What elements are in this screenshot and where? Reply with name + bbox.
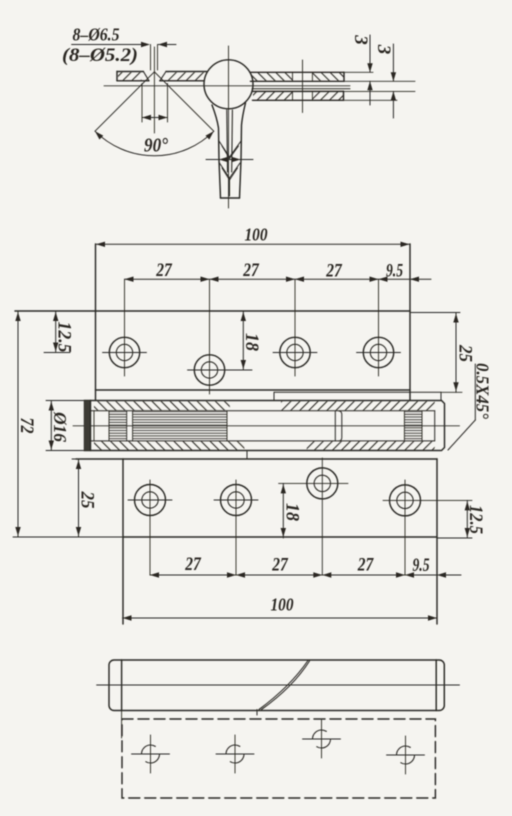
svg-text:12.5: 12.5 <box>465 505 486 534</box>
hinge side view body <box>109 660 444 711</box>
svg-text:18: 18 <box>241 333 262 351</box>
svg-text:0.5X45°: 0.5X45° <box>473 363 493 420</box>
mounting plate phantom outline <box>122 719 435 798</box>
horizontal centerline <box>104 85 350 87</box>
hole centerline <box>153 47 155 133</box>
svg-text:72: 72 <box>16 418 37 434</box>
svg-text:27: 27 <box>325 261 343 282</box>
dimension 72 far left <box>17 311 19 537</box>
knuckle seam curve <box>259 661 308 710</box>
thickness dimension 3 second <box>392 44 394 81</box>
dimension dia16 <box>50 401 52 451</box>
thickness dimension 3 first <box>369 35 371 72</box>
pin end cap <box>85 401 91 450</box>
svg-text:9.5: 9.5 <box>386 261 403 282</box>
countersink width dimension below plate <box>141 84 143 123</box>
dimension 18 top <box>242 311 244 370</box>
svg-text:27: 27 <box>184 554 202 575</box>
90 degree countersink angle <box>95 72 154 131</box>
upper right leaf section <box>250 71 344 73</box>
knurled bushing right <box>404 412 422 441</box>
svg-text:(8–Ø5.2): (8–Ø5.2) <box>62 45 138 66</box>
svg-text:3: 3 <box>350 34 371 45</box>
svg-text:8–Ø6.5: 8–Ø6.5 <box>73 25 120 45</box>
svg-text:90°: 90° <box>144 135 168 157</box>
bottom plate screw holes <box>135 485 166 516</box>
bottom hinge plate <box>76 458 437 460</box>
svg-text:27: 27 <box>357 555 375 576</box>
svg-text:27: 27 <box>271 555 289 576</box>
phantom screw holes <box>142 745 160 763</box>
barrel sleeve hatching <box>94 401 230 410</box>
downward leaf of hinge <box>212 105 221 198</box>
leaf thickness tick dimension <box>206 159 253 161</box>
dimension 100 bottom <box>123 617 438 619</box>
dimension 12.5 left <box>55 311 57 353</box>
vertical centerline of knuckle <box>228 46 230 208</box>
svg-text:3: 3 <box>373 44 394 55</box>
dimension row 27 27 27 9.5 top <box>125 278 411 280</box>
pin knurled section left <box>93 411 95 441</box>
svg-text:25: 25 <box>455 344 476 362</box>
left leaf plate section <box>117 71 143 73</box>
svg-text:27: 27 <box>242 260 260 281</box>
top plate screw holes <box>109 337 139 367</box>
svg-text:25: 25 <box>77 491 98 509</box>
middle plate line <box>252 88 350 90</box>
dimension 100 top <box>96 243 410 245</box>
dimension 18 bottom <box>282 483 284 538</box>
svg-text:Ø16: Ø16 <box>50 411 70 442</box>
svg-text:100: 100 <box>271 595 294 615</box>
dimension 25 bottom left <box>78 459 80 537</box>
dimension 25 right <box>455 313 457 393</box>
second leaf edge step bottom <box>246 451 248 460</box>
hole axis in right leaves <box>302 60 304 113</box>
barrel centerline <box>73 425 460 427</box>
chamfer callout 0.5X45 <box>474 364 476 420</box>
svg-text:18: 18 <box>282 503 303 521</box>
barrel sleeve inner edges <box>91 410 435 412</box>
countersunk hole in left plate <box>143 72 149 81</box>
svg-text:12.5: 12.5 <box>54 322 75 353</box>
second leaf edge step top <box>273 392 275 400</box>
hinge barrel outline <box>85 401 445 451</box>
dimension 12.5 bottom right <box>466 500 468 538</box>
side view centerline <box>97 684 460 686</box>
svg-text:100: 100 <box>245 225 268 245</box>
top hinge plate <box>15 310 410 312</box>
svg-text:9.5: 9.5 <box>413 555 430 576</box>
dimension row 27 27 27 9.5 bottom <box>150 574 437 576</box>
knuckle circle <box>204 60 253 109</box>
pin right end inside barrel <box>334 411 336 441</box>
svg-text:27: 27 <box>155 260 173 281</box>
lower right leaf section <box>252 90 344 92</box>
